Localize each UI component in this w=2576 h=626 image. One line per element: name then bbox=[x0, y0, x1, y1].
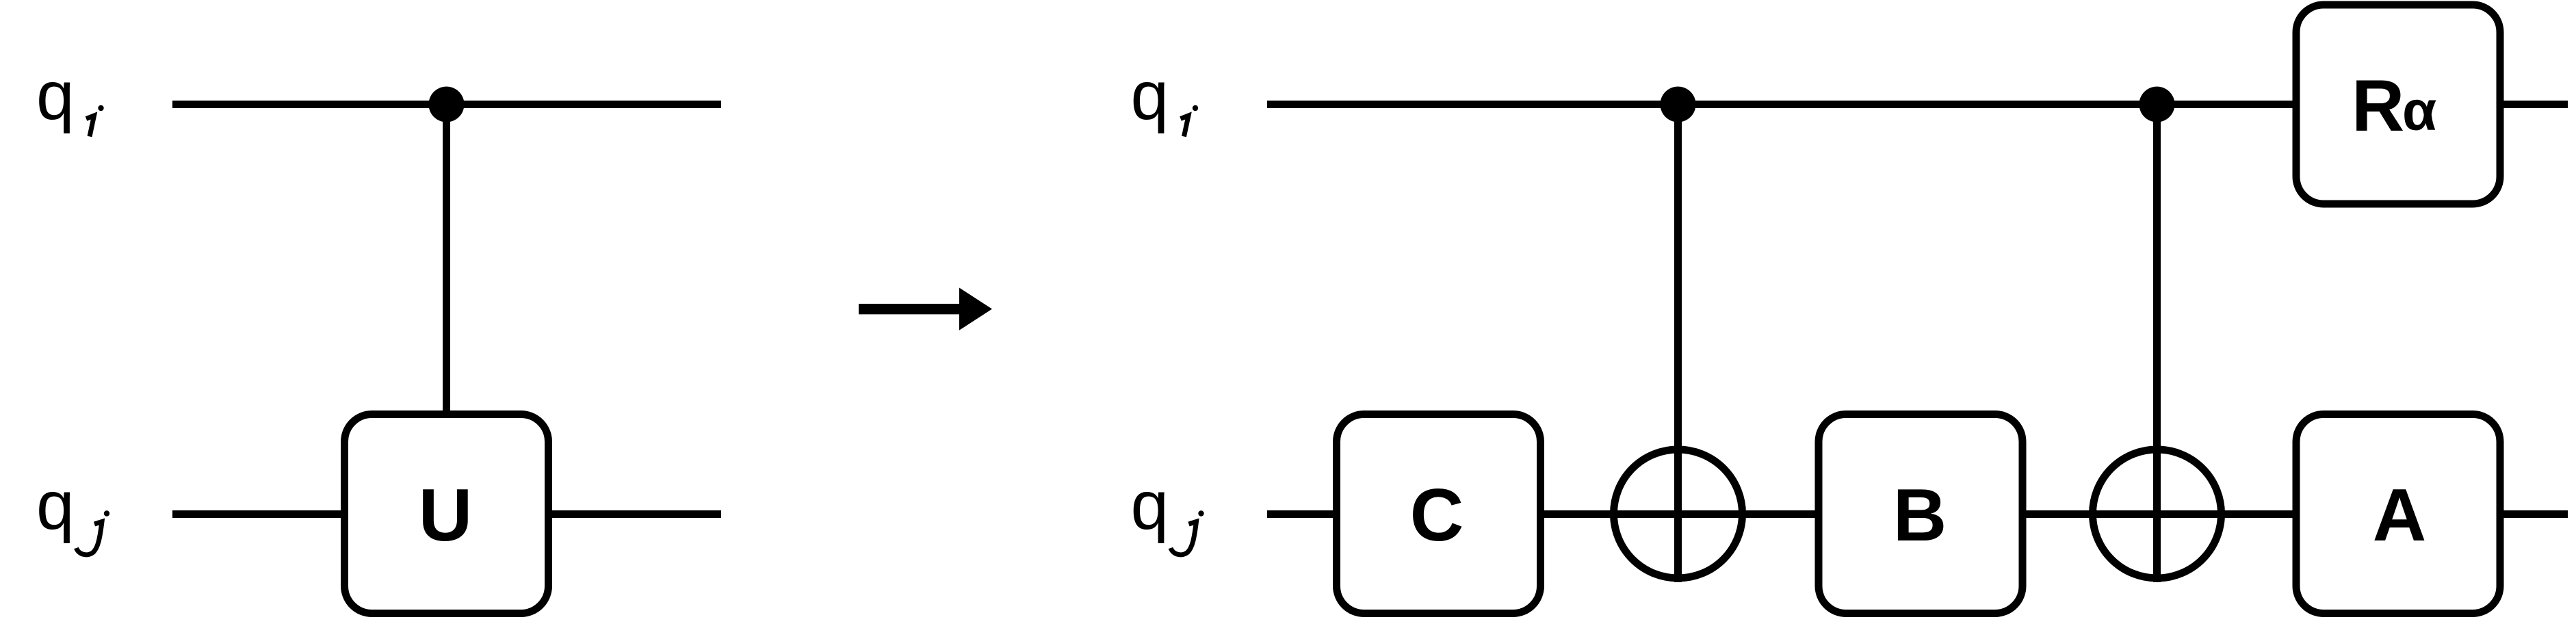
wire q_j segment between gate B and gate A (right circuit) bbox=[2019, 510, 2300, 518]
gate U box bbox=[345, 415, 549, 614]
svg-text:A: A bbox=[2373, 473, 2427, 557]
control dot on q_i (left circuit) bbox=[429, 87, 465, 122]
wire control vertical (left circuit) bbox=[443, 105, 450, 419]
svg-text:R: R bbox=[2352, 64, 2404, 146]
svg-text:U: U bbox=[419, 473, 473, 557]
wire q_i (left circuit, top) bbox=[172, 101, 721, 108]
arrow (transformation) bbox=[859, 288, 992, 330]
svg-text:q: q bbox=[36, 467, 75, 544]
svg-text:C: C bbox=[1410, 473, 1464, 557]
node label q_i (right circuit) bbox=[1131, 57, 1199, 137]
svg-text:q: q bbox=[1131, 467, 1169, 544]
control dot CNOT-2 on q_i bbox=[2139, 87, 2175, 122]
wire q_j left segment (left circuit) bbox=[172, 510, 348, 518]
svg-text:B: B bbox=[1893, 473, 1947, 557]
wire CNOT-2 control vertical (right circuit) bbox=[2153, 105, 2161, 583]
wire q_i exit segment after gate Ra (right circuit, top) bbox=[2497, 101, 2568, 108]
CNOT-1 target symbol on q_j bbox=[1614, 449, 1743, 578]
svg-text:q: q bbox=[36, 57, 75, 134]
CNOT-2 target symbol on q_j bbox=[2093, 449, 2222, 578]
svg-text:q: q bbox=[1131, 57, 1169, 134]
wire CNOT-1 control vertical (right circuit) bbox=[1674, 105, 1682, 583]
svg-text:α: α bbox=[2402, 80, 2436, 142]
wire q_j exit segment after gate A (right circuit) bbox=[2497, 510, 2568, 518]
gate A box bbox=[2296, 415, 2500, 614]
node label q_i (left circuit) bbox=[36, 57, 104, 137]
wire q_j entry segment (right circuit) bbox=[1267, 510, 1340, 518]
gate Ra box bbox=[2296, 5, 2500, 204]
gate B box bbox=[1819, 415, 2022, 614]
wire q_j right segment (left circuit) bbox=[545, 510, 721, 518]
gate C box bbox=[1337, 415, 1541, 614]
wire q_i main segment (right circuit, top) bbox=[1267, 101, 2300, 108]
wire q_j segment between gate C and gate B (right circuit) bbox=[1537, 510, 1822, 518]
control dot CNOT-1 on q_i bbox=[1661, 87, 1696, 122]
node label q_j (right circuit) bbox=[1131, 467, 1204, 555]
node label q_j (left circuit) bbox=[36, 467, 109, 555]
